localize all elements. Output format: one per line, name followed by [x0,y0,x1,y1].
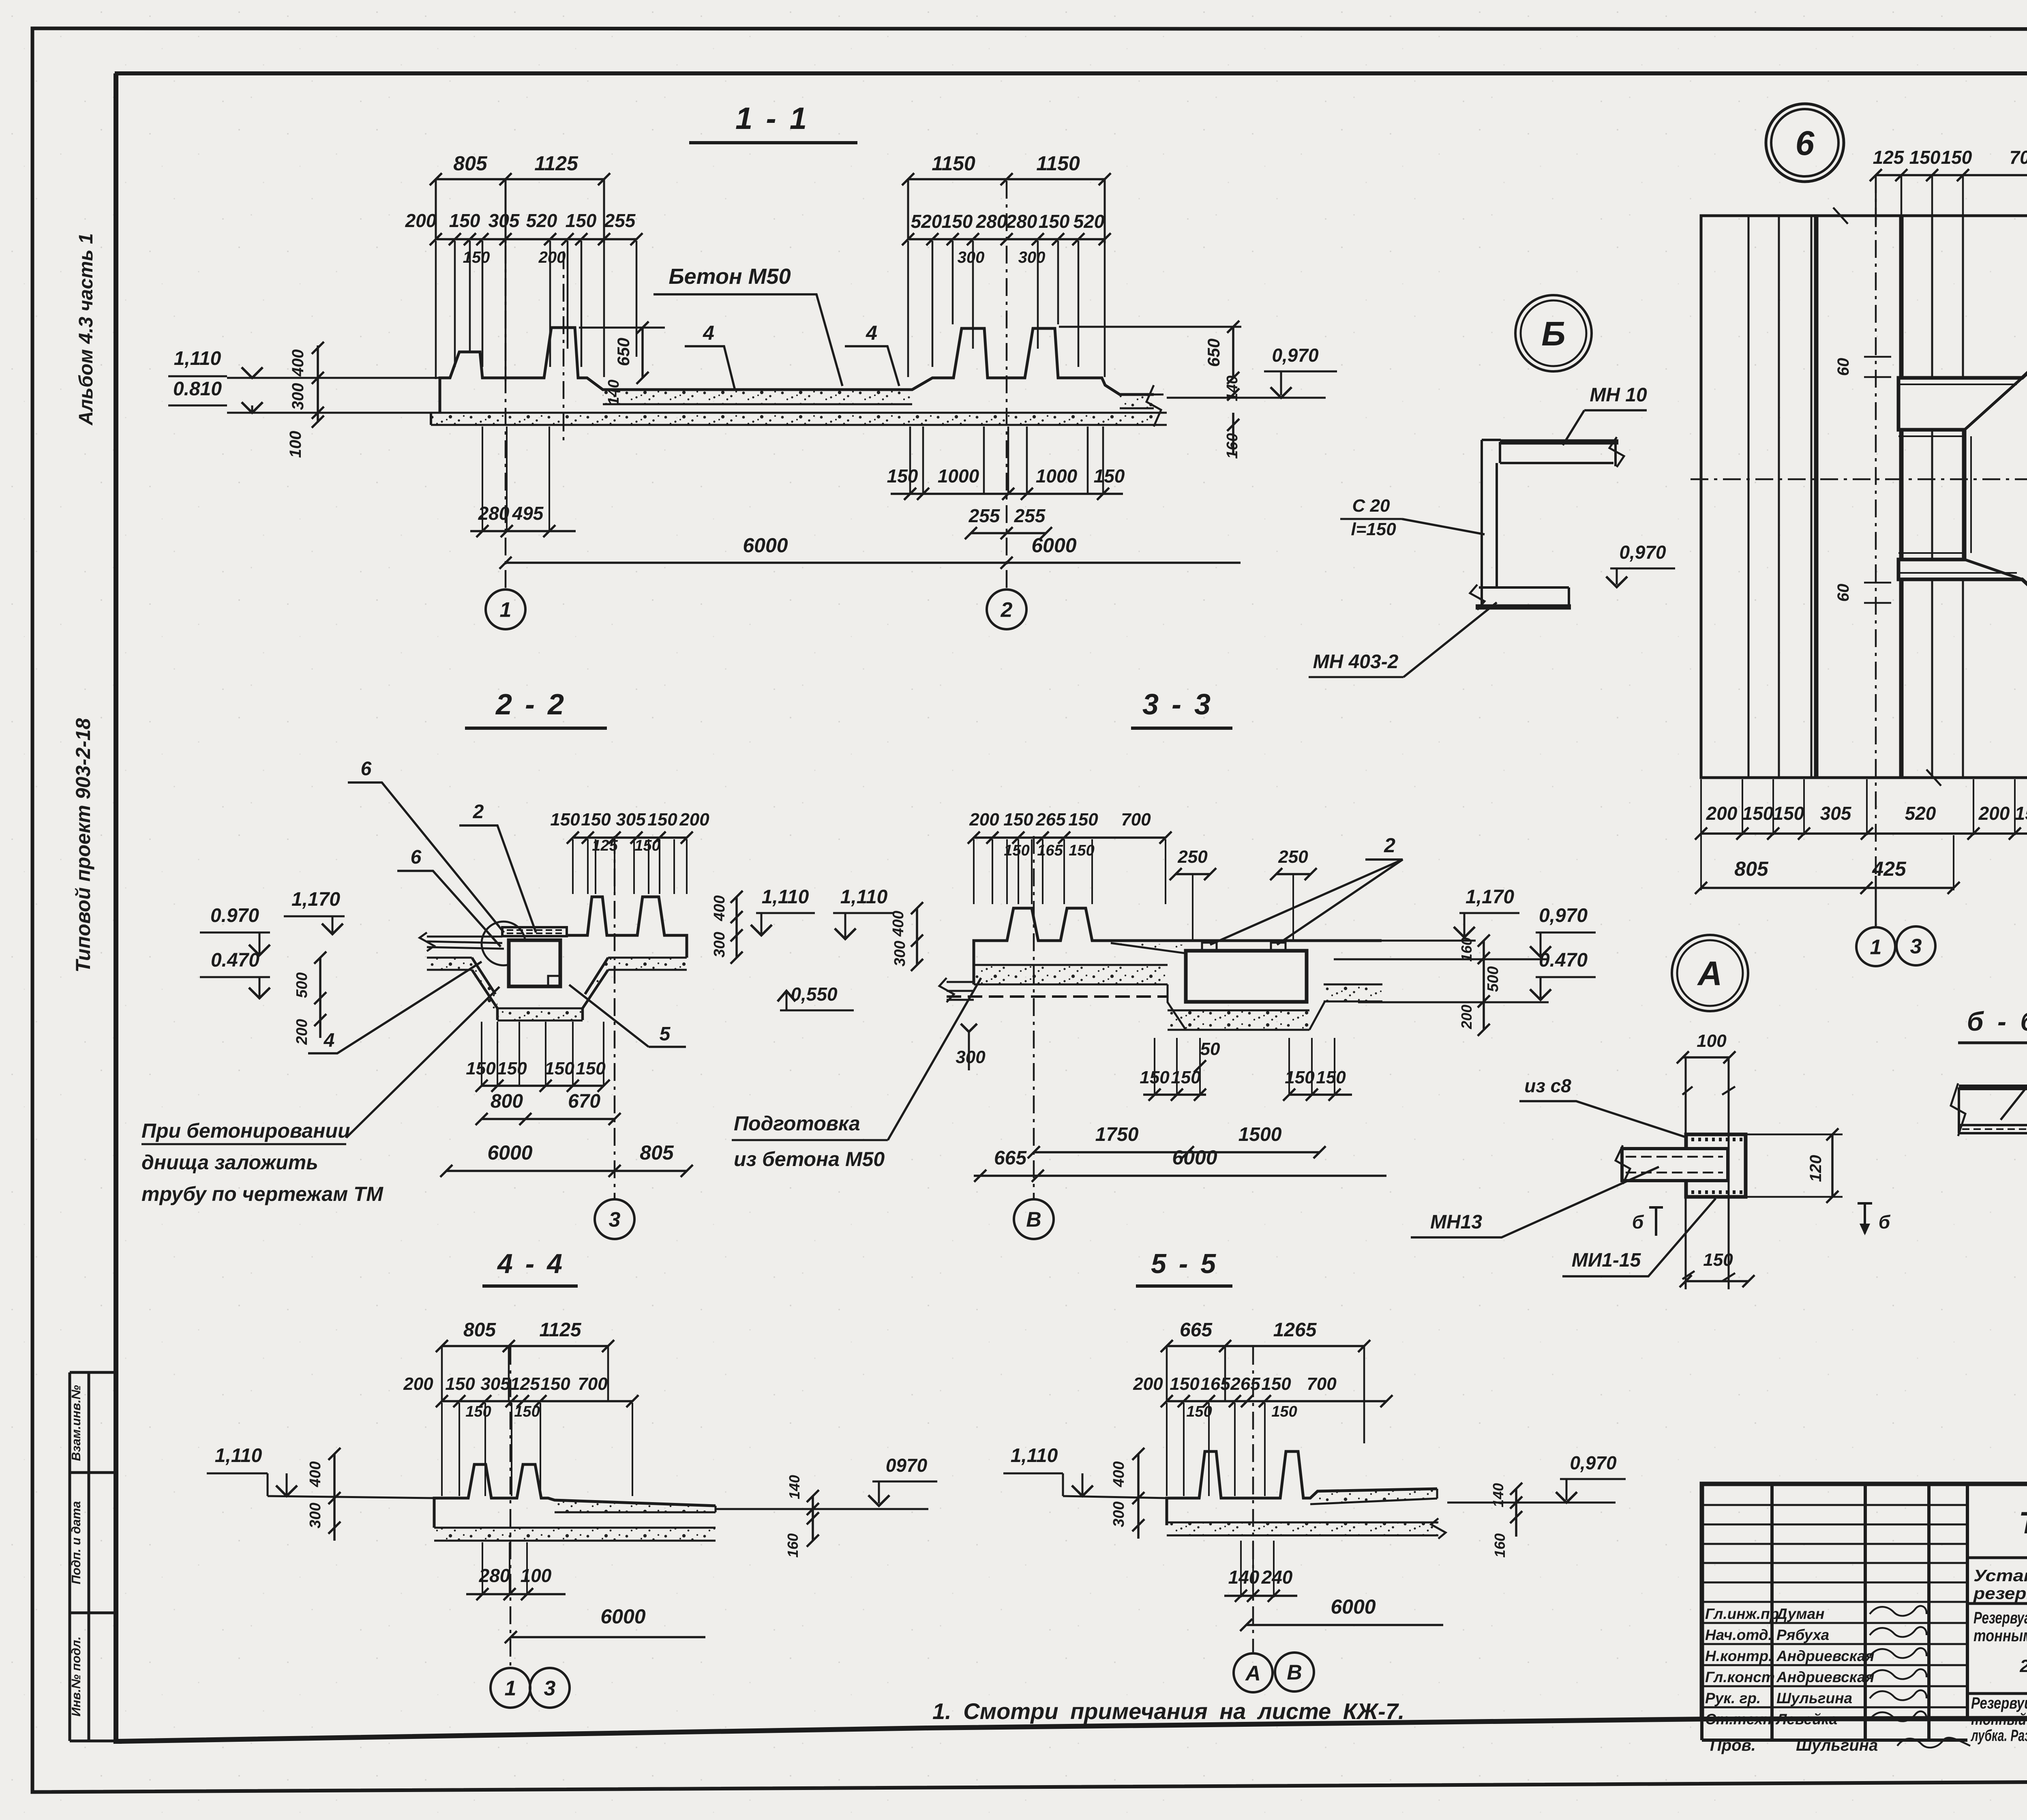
svg-text:1150: 1150 [1036,152,1080,175]
svg-text:300: 300 [711,932,728,957]
svg-text:165: 165 [1200,1374,1230,1394]
section 4-4 witness lines [441,1403,443,1496]
svg-text:А: А [1697,954,1723,993]
svg-text:520: 520 [1905,803,1936,824]
node B channel top plate [1500,439,1618,445]
svg-text:Инв.№ подл.: Инв.№ подл. [69,1636,83,1716]
section 2-2 witness lines [572,839,574,894]
svg-text:лубка. Разрезы „1-1“-„5-5“.Узе: лубка. Разрезы „1-1“-„5-5“.Узел „Б“ [1971,1727,2027,1745]
svg-text:495: 495 [512,503,544,524]
svg-text:255: 255 [604,210,636,231]
svg-text:1,170: 1,170 [1466,886,1514,908]
axis circle 2 [987,590,1026,629]
svg-text:3: 3 [1910,935,1922,958]
svg-text:305: 305 [616,810,646,830]
svg-text:6000: 6000 [1331,1595,1376,1618]
section 1-1 left dim row 200 150 305 520 150 255 [436,238,636,240]
svg-text:150: 150 [544,1059,574,1078]
top margin band line [115,71,2027,75]
svg-text:В: В [1287,1661,1302,1685]
section 3-3 void box [1186,951,1307,1002]
svg-text:1,110: 1,110 [762,886,809,908]
svg-text:255: 255 [1014,505,1046,526]
svg-text:150: 150 [465,1403,491,1420]
svg-text:0,550: 0,550 [791,984,838,1005]
section 1-1 right dims 650/140/160 [1059,326,1241,328]
section 4-4 dim 6000 [511,1636,705,1638]
section 2-2 embedded plate [502,927,567,936]
section 1-1 right witness lines [907,241,909,377]
svg-text:150: 150 [1742,803,1774,824]
section 1-1 axis dim 6000 6000 [506,562,1241,564]
section 2-2 dim 6000/805 [446,1170,687,1172]
svg-text:из с8: из с8 [1524,1075,1571,1096]
section 4-4 height dims 140/160 [812,1496,814,1541]
svg-text:1265: 1265 [1273,1319,1317,1341]
section 5-5 dim row 200 150 165 265 150 700 [1167,1400,1386,1402]
svg-text:4: 4 [703,322,714,344]
svg-text:665: 665 [1180,1319,1213,1341]
svg-text:150: 150 [566,210,597,231]
section 3-3 left protruding slab [947,982,974,1000]
svg-text:150: 150 [1170,1374,1200,1394]
svg-text:200: 200 [538,249,566,266]
svg-text:300: 300 [307,1503,324,1528]
svg-text:Думан: Думан [1775,1606,1825,1622]
section 4-4 base mat [434,1528,716,1541]
svg-text:0,970: 0,970 [1272,345,1319,366]
svg-text:400: 400 [711,895,728,921]
svg-text:805: 805 [640,1141,674,1164]
svg-text:резервуарами 2×100, 2×250(200: резервуарами 2×100, 2×250(200), 2× 500( … [1973,1584,2027,1603]
svg-text:100: 100 [287,431,304,458]
section 3-3 top dims 200 150 265 150 700 [974,836,1166,839]
section 3-3 witness lines [973,839,975,904]
svg-text:400: 400 [289,349,307,377]
svg-text:700: 700 [2010,147,2027,168]
svg-text:150: 150 [1171,1068,1201,1087]
section 4-4 dim row 200 150 305 125 150 700 [442,1400,632,1402]
svg-text:150: 150 [887,465,918,487]
svg-text:650: 650 [1204,339,1223,367]
svg-text:трубу по чертежам ТМ: трубу по чертежам ТМ [141,1183,384,1205]
svg-text:520: 520 [911,211,942,232]
inner frame bottom line [118,1717,2027,1741]
svg-text:200: 200 [1133,1374,1163,1394]
svg-text:тонными резервуарами: тонными резервуарами [1973,1626,2027,1645]
formwork plan top dims 125 150 150 700 [1876,174,2027,176]
svg-text:60: 60 [1834,358,1852,376]
svg-text:300: 300 [891,941,909,966]
svg-text:280: 280 [1006,211,1037,232]
axis line 2 [1006,181,1008,589]
svg-text:700: 700 [1121,810,1151,830]
formwork plan centerline vertical [1875,175,1877,876]
svg-text:1000: 1000 [938,465,979,487]
svg-text:Бетон М50: Бетон М50 [669,264,791,289]
section 1-1 bottom mat slab [431,413,1154,425]
svg-text:150: 150 [463,249,490,266]
section 4-4 bottom dim 280/100 [482,1542,483,1595]
svg-text:280: 280 [479,1565,510,1586]
node B channel bottom plate [1476,605,1571,610]
svg-text:3 - 3: 3 - 3 [1142,688,1213,721]
svg-text:150: 150 [942,211,973,232]
section 5-5 dim 6000 [1246,1624,1443,1626]
section 4-4 tail slab [555,1500,716,1512]
svg-text:150: 150 [576,1059,606,1078]
section 4-4 height dims 400/300 [333,1454,336,1541]
svg-text:265: 265 [1230,1374,1260,1394]
svg-text:1: 1 [505,1677,516,1700]
svg-text:0,970: 0,970 [1619,542,1666,563]
node A column lines [1685,1057,1687,1289]
section 3-3 profile [974,908,1382,984]
svg-text:1150: 1150 [932,152,975,175]
section 3-3 pit [1168,984,1186,1030]
svg-text:Гл.инж.пр: Гл.инж.пр [1705,1606,1779,1622]
svg-text:150: 150 [1271,1403,1297,1420]
node B callout circle [1515,295,1592,371]
svg-text:150: 150 [1285,1068,1315,1087]
svg-text:140: 140 [1228,1567,1260,1588]
title block label rows [1702,1622,1967,1624]
section 3-3 dashed line [947,995,1168,998]
section 3-3 right height dims 160/500/200 [1483,941,1485,1030]
section 1-1 left dim row 805/1125 [436,178,604,180]
svg-text:Шульгина: Шульгина [1796,1736,1878,1754]
node A plate MN13 [1622,1149,1728,1181]
section 3-3 prep band [974,965,1168,984]
svg-text:Нач.отд.: Нач.отд. [1705,1627,1772,1643]
svg-text:0970: 0970 [886,1455,928,1476]
section 4-4 dim 805/1125 [442,1345,608,1347]
svg-text:700: 700 [578,1374,608,1394]
axis circles 1 3 under plan [1875,876,1877,928]
svg-text:6: 6 [361,758,372,780]
section 4-4 profile [434,1464,716,1528]
svg-text:150: 150 [1261,1374,1291,1394]
section 5-5 base mat [1167,1522,1438,1535]
svg-text:400: 400 [1110,1461,1127,1487]
svg-text:3: 3 [609,1208,621,1232]
inner drawing frame [116,73,122,1741]
node B channel web [1482,440,1497,608]
svg-text:Альбом 4.3 часть 1: Альбом 4.3 часть 1 [75,233,97,426]
svg-text:265: 265 [1035,810,1066,830]
svg-text:150: 150 [2015,803,2027,824]
section 3-3 dims 150 150 pairs [1154,1038,1155,1095]
svg-text:50: 50 [1200,1039,1220,1059]
svg-text:305: 305 [480,1374,510,1394]
axis circles 1 3 bottom [491,1668,530,1708]
svg-text:160: 160 [1458,937,1475,962]
section 1-1 right dim row 520 150 280 280 150 520 [908,238,1105,240]
section 1-1 concrete prep strip [603,390,912,404]
svg-text:тонный емк. 500м³. Дм1. Опа-: тонный емк. 500м³. Дм1. Опа- [1971,1711,2027,1728]
svg-text:Б: Б [1541,315,1565,353]
svg-text:150: 150 [647,810,677,830]
svg-text:160: 160 [1491,1533,1508,1558]
svg-text:500: 500 [1485,966,1502,992]
svg-text:250: 250 [1177,847,1208,867]
formwork plan bottom dim chain [1700,779,1702,835]
section 5-5 dim 665/1265 [1167,1345,1364,1347]
svg-text:300: 300 [289,383,307,410]
svg-text:6: 6 [411,847,422,868]
axis circle V [1014,1199,1054,1239]
svg-text:200: 200 [1706,803,1738,824]
wall axis dash-dot [563,251,565,446]
svg-text:400: 400 [890,911,907,937]
svg-text:МИ1-15: МИ1-15 [1572,1250,1641,1271]
section 1-1 right dim row 1150/1150 [908,178,1105,180]
formwork plan outer rect [1701,216,2027,778]
svg-text:А: А [1245,1662,1261,1685]
svg-text:5 - 5: 5 - 5 [1151,1248,1218,1279]
axis line V [1033,836,1035,1198]
svg-text:0,970: 0,970 [1539,905,1588,926]
svg-text:140: 140 [786,1475,803,1499]
svg-text:200: 200 [405,210,437,231]
svg-text:1,110: 1,110 [174,348,221,369]
svg-text:2 - 2: 2 - 2 [495,688,566,721]
section 2-2 left height dims 500/200 [319,958,321,1038]
svg-text:6000: 6000 [743,534,788,557]
svg-text:1500: 1500 [1238,1124,1282,1145]
svg-text:250: 250 [1278,847,1308,867]
section 2-2 void box [509,940,560,986]
svg-text:150: 150 [540,1374,570,1394]
section 1-1 foundation profile [440,328,1154,413]
svg-text:1,110: 1,110 [840,886,888,908]
svg-text:Установка мазутоснабжения Q=: Установка мазутоснабжения Q=3,25 и 6,5 м… [1973,1566,2027,1585]
node A callout circle [1672,935,1748,1011]
svg-text:500: 500 [294,972,311,998]
svg-text:300: 300 [956,1047,986,1067]
svg-text:255: 255 [969,505,1001,526]
svg-text:2× 500 м³: 2× 500 м³ [2019,1656,2027,1676]
svg-text:280: 280 [976,211,1007,232]
svg-text:150: 150 [1316,1068,1346,1087]
svg-text:805: 805 [463,1319,496,1341]
svg-text:Ст.техн: Ст.техн [1705,1711,1772,1728]
node A dim 120 [1746,1134,1843,1197]
svg-text:Пров.: Пров. [1710,1736,1756,1754]
svg-text:200: 200 [679,810,709,830]
svg-text:150: 150 [1773,803,1804,824]
section 2-2 top dims 150 150 305 150 200 [573,836,687,839]
section 5-5 height dims 140/160 [1515,1489,1517,1537]
svg-text:2: 2 [1384,834,1395,857]
svg-text:0.810: 0.810 [173,378,222,400]
svg-text:300: 300 [1110,1501,1127,1527]
axis line 1 [505,181,507,589]
svg-text:Резервуарный парк с железобе-: Резервуарный парк с железобе- [1973,1608,2027,1627]
section 2-2 bottom dims 150x4 [481,1022,482,1087]
axis line 3 [614,836,616,1198]
svg-text:425: 425 [1872,857,1907,880]
svg-text:6: 6 [1796,124,1815,162]
formwork plan circle 6 [1766,104,1844,182]
svg-text:1 - 1: 1 - 1 [735,101,809,136]
svg-text:305: 305 [1820,803,1852,824]
section 1-1 left bottom dim 280/495 [482,427,483,532]
axis 4-4 [510,1347,512,1667]
svg-text:140: 140 [1490,1483,1506,1507]
svg-text:Н.контр.: Н.контр. [1705,1648,1772,1664]
svg-text:0.470: 0.470 [211,950,259,971]
svg-text:4: 4 [866,322,877,344]
svg-text:Рук. гр.: Рук. гр. [1705,1690,1761,1706]
svg-text:800: 800 [491,1091,523,1112]
node A bracket [1686,1134,1746,1197]
svg-text:6000: 6000 [1172,1146,1217,1169]
svg-text:МН 10: МН 10 [1590,384,1647,406]
svg-text:150: 150 [581,810,611,830]
left margin stamp table [70,1372,117,1741]
section 1-1 bottom dim 150 1000 1000 150 [909,427,911,494]
section 1-1 left height dims 400/300/100 [317,345,319,422]
svg-text:300: 300 [958,249,985,266]
axis circles A V bottom [1234,1653,1273,1692]
svg-text:300: 300 [1018,249,1046,266]
svg-text:Подготовка: Подготовка [734,1112,860,1135]
svg-text:665: 665 [994,1147,1027,1169]
svg-text:125: 125 [510,1374,540,1394]
svg-text:l=150: l=150 [1351,519,1396,539]
svg-text:С 20: С 20 [1352,496,1390,516]
svg-text:1. Смотри примечания на л: 1. Смотри примечания на листе КЖ-7. [932,1698,1404,1724]
node A section mark b left [1649,1207,1663,1236]
svg-text:150: 150 [1703,1250,1733,1270]
svg-text:1: 1 [500,598,512,622]
node A weld dots [1691,1138,1694,1141]
svg-text:1,110: 1,110 [215,1445,262,1466]
svg-text:700: 700 [1307,1374,1337,1394]
svg-text:ТП 903-2-18: ТП 903-2-18 [2019,1506,2027,1540]
formwork plan boards vertical lines [1748,216,1750,778]
svg-text:150: 150 [634,837,660,854]
svg-text:160: 160 [784,1533,801,1558]
section b-b slab [1959,1085,2027,1090]
axis circle 1 [486,590,525,629]
section 5-5 tail slab [1318,1489,1437,1503]
svg-text:Шульгина: Шульгина [1776,1690,1852,1706]
svg-text:520: 520 [1073,211,1105,232]
axis 5-5 [1252,1347,1254,1652]
svg-text:240: 240 [1261,1567,1293,1588]
svg-text:МН 403-2: МН 403-2 [1313,651,1399,673]
section 5-5 witness lines [1166,1403,1168,1496]
svg-text:805: 805 [453,152,488,175]
svg-text:805: 805 [1734,857,1769,880]
section 5-5 height dims 400/300 [1137,1454,1140,1539]
svg-text:1125: 1125 [534,152,579,175]
section 2-2 right height dims 400/300 [735,897,738,958]
svg-text:Андриевская: Андриевская [1776,1669,1875,1685]
svg-text:150: 150 [1068,810,1098,830]
svg-text:0.470: 0.470 [1539,950,1588,971]
section 1-1 slab break mark [1146,385,1161,427]
svg-text:6000: 6000 [487,1141,532,1164]
svg-text:520: 520 [526,210,557,231]
svg-text:МН13: МН13 [1430,1211,1482,1233]
svg-text:650: 650 [614,338,633,366]
svg-text:200: 200 [294,1019,311,1045]
formwork plan centerline horizontal [1691,478,2027,480]
svg-text:днища заложить: днища заложить [141,1151,318,1174]
svg-text:200: 200 [1978,803,2010,824]
formwork plan central form shape [1898,299,2027,658]
svg-text:1000: 1000 [1036,465,1078,487]
svg-text:2: 2 [473,801,484,823]
svg-text:0.970: 0.970 [210,905,259,926]
svg-text:200: 200 [1458,1005,1475,1029]
svg-text:120: 120 [1807,1155,1825,1182]
svg-text:5: 5 [660,1023,671,1045]
section 2-2 pit concrete [427,958,472,970]
svg-text:При бетонировании: При бетонировании [141,1119,350,1142]
section 5-5 bottom dim 140/240 [1240,1541,1242,1597]
svg-text:160: 160 [1224,433,1241,459]
svg-text:150: 150 [497,1059,527,1078]
section b-b gasket line [1962,1128,2027,1130]
svg-text:100: 100 [1697,1031,1727,1051]
svg-text:6000: 6000 [1031,534,1076,557]
svg-text:Рябуха: Рябуха [1776,1627,1829,1643]
svg-text:Взам.инв.№: Взам.инв.№ [69,1385,83,1461]
svg-text:400: 400 [307,1461,324,1487]
svg-text:165: 165 [1037,842,1063,859]
svg-text:150: 150 [514,1403,540,1420]
section 1-1 left witness lines [435,241,437,379]
section 3-3 dim 665/6000 [974,1175,1386,1177]
title block thin rows [1702,1504,1967,1506]
section 3-3 dim 1750/1500 [1034,1151,1320,1153]
svg-text:1750: 1750 [1095,1124,1139,1145]
svg-text:Гл.конст: Гл.конст [1705,1669,1775,1685]
svg-text:150: 150 [1039,211,1070,232]
svg-text:б: б [1879,1211,1891,1233]
svg-text:140: 140 [605,379,622,405]
svg-text:Резервуир мазута железобе-: Резервуир мазута железобе- [1971,1694,2027,1712]
title block right part lines [1967,1558,2027,1694]
section 5-5 profile [1167,1451,1437,1525]
svg-text:б - б: б - б [1967,1006,2027,1036]
svg-text:150: 150 [449,210,480,231]
svg-text:1: 1 [1870,936,1882,959]
svg-text:125: 125 [1873,147,1905,168]
svg-text:1125: 1125 [539,1319,582,1341]
svg-text:3: 3 [544,1677,556,1700]
svg-text:150: 150 [1069,842,1094,859]
svg-text:200: 200 [969,810,999,830]
formwork plan double line offsets [1898,384,2017,573]
svg-text:2: 2 [1001,598,1013,622]
formwork plan dim 805/425 [1701,887,1954,889]
svg-text:150: 150 [466,1059,496,1078]
section 1-1 dim 650 at hump [579,327,665,329]
svg-text:1,110: 1,110 [1011,1445,1058,1466]
svg-text:4 - 4: 4 - 4 [497,1248,565,1279]
svg-text:100: 100 [521,1565,552,1586]
svg-text:150: 150 [550,810,580,830]
section 2-2 dim 800/670 [482,1118,615,1120]
svg-text:150: 150 [1140,1068,1170,1087]
svg-text:Андриевская: Андриевская [1776,1648,1875,1664]
svg-text:0,970: 0,970 [1570,1452,1617,1473]
